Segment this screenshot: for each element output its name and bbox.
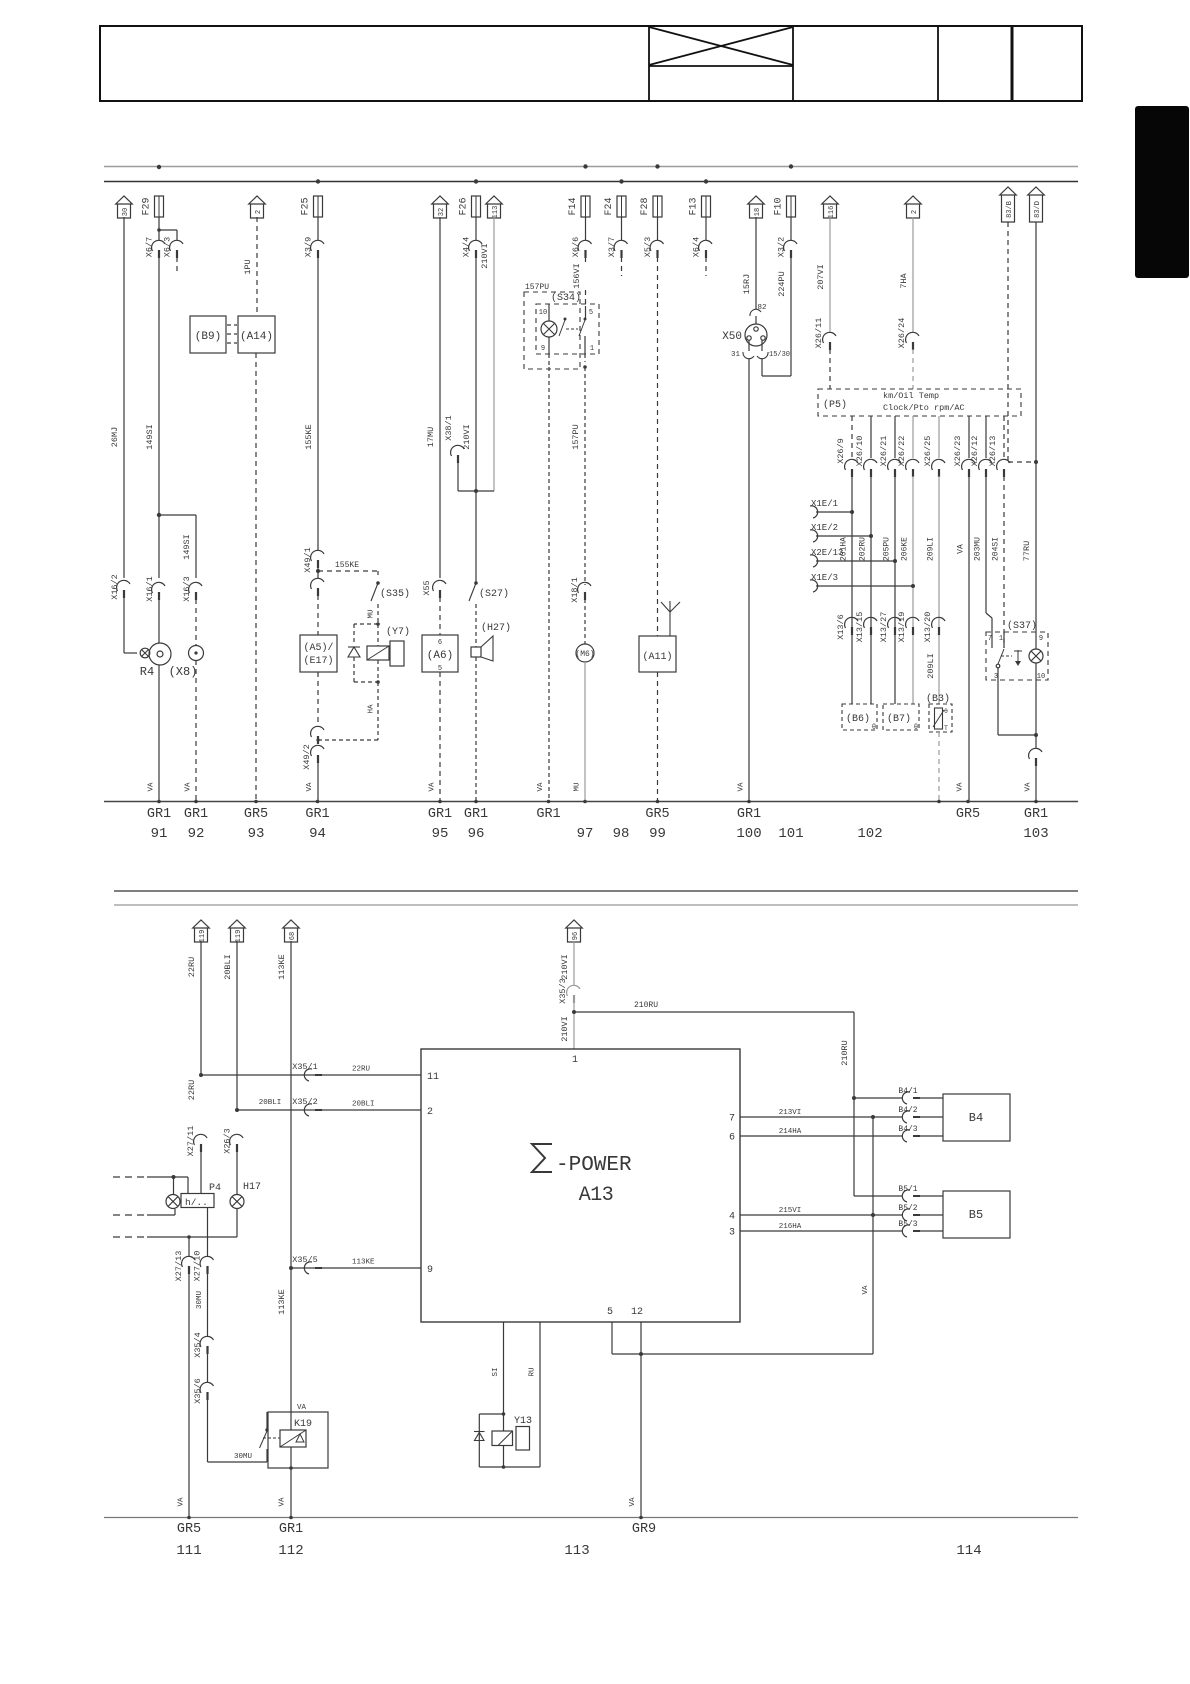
svg-text:156VI: 156VI [572,263,582,289]
svg-text:(A6): (A6) [427,650,453,662]
svg-text:215VI: 215VI [779,1207,802,1215]
svg-text:210RU: 210RU [634,1001,658,1010]
svg-text:X6/6: X6/6 [571,237,581,257]
svg-text:6: 6 [729,1133,735,1144]
svg-text:203MU: 203MU [974,537,983,561]
svg-text:157PU: 157PU [571,424,581,450]
svg-text:F10: F10 [774,197,785,215]
svg-text:210VI: 210VI [560,1016,570,1042]
svg-text:98: 98 [613,826,630,842]
svg-text:Y13: Y13 [514,1416,532,1427]
svg-text:11: 11 [427,1072,439,1083]
svg-text:-POWER: -POWER [556,1154,632,1177]
svg-text:Clock/Pto rpm/AC: Clock/Pto rpm/AC [883,403,965,413]
svg-text:B5: B5 [969,1208,983,1222]
svg-text:68: 68 [289,932,297,940]
svg-text:99: 99 [649,826,666,842]
svg-text:22RU: 22RU [352,1066,370,1074]
svg-text:VA: VA [629,1497,637,1507]
svg-text:119: 119 [199,930,207,943]
svg-text:92: 92 [188,826,205,842]
svg-text:114: 114 [956,1543,981,1559]
svg-text:R4: R4 [140,665,154,679]
svg-text:1: 1 [572,1055,578,1066]
svg-text:B4: B4 [969,1111,983,1125]
svg-text:VA: VA [738,782,746,792]
svg-text:VA: VA [429,782,437,792]
svg-text:210RU: 210RU [840,1040,850,1066]
svg-text:111: 111 [176,1543,201,1559]
svg-text:X26/23: X26/23 [953,436,963,467]
svg-text:96: 96 [572,932,580,940]
svg-text:113: 113 [564,1543,589,1559]
svg-text:X18/1: X18/1 [570,577,580,603]
svg-text:GR1: GR1 [464,807,488,822]
svg-text:VA: VA [148,782,156,792]
svg-text:VA: VA [185,782,193,792]
svg-text:GR1: GR1 [305,807,329,822]
svg-text:30MU: 30MU [196,1291,204,1309]
svg-text:5: 5 [438,665,442,673]
svg-text:10: 10 [539,309,547,317]
svg-text:X3/7: X3/7 [607,237,617,257]
svg-text:(H27): (H27) [481,622,511,634]
svg-text:VA: VA [957,544,966,554]
svg-text:(S35): (S35) [380,588,410,600]
svg-text:32: 32 [438,208,446,216]
svg-text:(S34): (S34) [551,292,581,304]
svg-text:F26: F26 [459,197,470,215]
svg-text:113KE: 113KE [352,1259,375,1267]
svg-text:P4: P4 [209,1183,221,1194]
svg-text:91: 91 [151,826,168,842]
svg-text:101: 101 [778,826,803,842]
svg-text:18: 18 [754,208,762,216]
svg-text:X26/11: X26/11 [814,318,824,349]
svg-text:6: 6 [438,639,442,647]
svg-text:204SI: 204SI [992,537,1001,561]
svg-text:(B9): (B9) [195,331,221,343]
svg-text:1: 1 [999,635,1003,643]
svg-text:1: 1 [590,345,594,353]
svg-text:20BLI: 20BLI [223,954,233,980]
svg-text:12: 12 [631,1307,643,1318]
svg-text:95: 95 [432,826,449,842]
svg-text:GR1: GR1 [1024,807,1048,822]
svg-text:1PU: 1PU [243,259,253,274]
svg-text:112: 112 [278,1543,303,1559]
svg-text:X26/9: X26/9 [836,438,846,464]
svg-text:VA: VA [957,782,965,792]
svg-text:224PU: 224PU [777,271,787,297]
svg-text:X3/2: X3/2 [777,237,787,257]
svg-text:VA: VA [178,1497,186,1507]
svg-text:X4/4: X4/4 [462,237,472,257]
svg-text:20BLI: 20BLI [352,1101,375,1109]
svg-text:9: 9 [541,345,545,353]
svg-text:(B6): (B6) [846,713,870,725]
svg-text:MU: MU [368,609,376,618]
svg-text:3: 3 [729,1228,735,1239]
svg-text:θ: θ [914,724,918,732]
svg-text:96: 96 [468,826,485,842]
svg-text:X26/24: X26/24 [897,318,907,349]
svg-text:GR1: GR1 [147,807,171,822]
svg-text:205PU: 205PU [883,537,892,561]
svg-text:X50: X50 [722,331,742,343]
svg-text:22RU: 22RU [187,957,197,977]
svg-text:VA: VA [297,1404,307,1412]
svg-text:209LI: 209LI [927,537,936,561]
svg-text:155KE: 155KE [335,561,359,570]
svg-text:15RJ: 15RJ [742,274,752,294]
svg-text:VA: VA [862,1285,870,1295]
svg-text:X35/6: X35/6 [193,1378,203,1404]
svg-text:82: 82 [757,304,766,312]
svg-text:X6/7: X6/7 [145,237,155,257]
svg-text:F24: F24 [604,197,615,215]
svg-text:5: 5 [607,1307,613,1318]
svg-text:(Y7): (Y7) [386,626,410,638]
svg-text:(X8): (X8) [169,665,198,679]
svg-text:15/30: 15/30 [769,351,790,359]
svg-text:(B3): (B3) [926,693,950,705]
svg-text:22RU: 22RU [187,1080,197,1100]
svg-text:X26/12: X26/12 [970,436,980,467]
svg-text:F14: F14 [568,197,579,215]
svg-text:HA: HA [368,704,376,714]
svg-text:149SI: 149SI [182,534,192,560]
svg-text:GR1: GR1 [428,807,452,822]
svg-text:H17: H17 [243,1182,261,1193]
svg-text:GR5: GR5 [645,807,669,822]
svg-text:20BLI: 20BLI [259,1099,282,1107]
svg-text:A13: A13 [579,1184,614,1207]
svg-text:7: 7 [729,1114,735,1125]
svg-text:K19: K19 [294,1419,312,1430]
svg-text:9: 9 [427,1265,433,1276]
svg-text:102: 102 [857,826,882,842]
svg-text:26MJ: 26MJ [110,427,120,447]
svg-text:202RU: 202RU [859,537,868,561]
svg-text:113KE: 113KE [277,1289,287,1315]
svg-text:77RU: 77RU [1022,541,1032,561]
svg-text:97: 97 [577,826,594,842]
svg-text:83/B: 83/B [1006,201,1014,218]
svg-text:2: 2 [911,210,919,214]
svg-text:206KE: 206KE [901,537,910,561]
svg-text:VA: VA [279,1497,287,1507]
svg-text:MU: MU [574,782,582,791]
svg-text:17MU: 17MU [426,427,436,447]
svg-text:4: 4 [729,1212,735,1223]
svg-text:155KE: 155KE [304,424,314,450]
svg-text:116: 116 [828,206,836,219]
svg-text:9: 9 [1039,635,1043,643]
svg-text:X6/3: X6/3 [163,237,173,257]
svg-text:θ: θ [872,724,876,732]
svg-text:(B7): (B7) [887,713,911,725]
svg-text:210VI: 210VI [560,954,570,980]
svg-text:113: 113 [492,206,500,219]
svg-text:(P5): (P5) [823,399,847,411]
svg-text:(M6): (M6) [575,650,594,659]
svg-text:X35/2: X35/2 [292,1097,318,1107]
svg-text:θ: θ [944,708,948,715]
svg-text:(S37): (S37) [1007,620,1037,632]
svg-text:X3/9: X3/9 [304,237,314,257]
svg-text:216HA: 216HA [779,1223,802,1231]
svg-text:GR1: GR1 [737,807,761,822]
svg-text:119: 119 [235,930,243,943]
svg-text:VA: VA [537,782,545,792]
svg-text:31: 31 [731,351,741,359]
svg-text:X16/2: X16/2 [110,574,120,600]
svg-text:F13: F13 [689,197,700,215]
svg-text:GR1: GR1 [536,807,560,822]
svg-text:km/Oil Temp: km/Oil Temp [883,391,939,401]
svg-text:VA: VA [1025,782,1033,792]
svg-text:210VI: 210VI [480,243,490,269]
svg-text:(E17): (E17) [303,655,333,667]
svg-text:F25: F25 [301,197,312,215]
svg-text:207VI: 207VI [816,264,826,290]
svg-text:GR5: GR5 [177,1522,201,1537]
svg-text:(A11): (A11) [642,651,672,663]
svg-text:X6/4: X6/4 [692,237,702,257]
svg-text:X26/21: X26/21 [879,436,889,467]
svg-text:X27/11: X27/11 [186,1126,196,1157]
svg-text:X26/22: X26/22 [897,436,907,467]
svg-text:5: 5 [589,309,593,317]
svg-text:103: 103 [1023,826,1048,842]
svg-text:157PU: 157PU [525,283,549,292]
svg-text:X26/25: X26/25 [923,436,933,467]
svg-text:GR9: GR9 [632,1522,656,1537]
svg-text:(S27): (S27) [479,588,509,600]
svg-text:X38/1: X38/1 [444,415,454,441]
svg-text:100: 100 [736,826,761,842]
svg-text:X35/1: X35/1 [292,1062,318,1072]
svg-text:30: 30 [122,208,130,216]
svg-text:149SI: 149SI [145,424,155,450]
svg-text:X16/1: X16/1 [145,576,155,602]
svg-text:GR5: GR5 [244,807,268,822]
svg-text:GR1: GR1 [184,807,208,822]
svg-text:(A5)/: (A5)/ [303,642,333,654]
svg-text:X49/2: X49/2 [302,744,312,770]
svg-text:94: 94 [309,826,326,842]
svg-text:GR5: GR5 [956,807,980,822]
svg-text:X16/3: X16/3 [182,576,192,602]
svg-text:F28: F28 [640,197,651,215]
svg-text:F29: F29 [142,197,153,215]
svg-text:X5/3: X5/3 [643,237,653,257]
svg-text:X35/5: X35/5 [292,1255,318,1265]
svg-text:10: 10 [1037,673,1045,681]
svg-text:214HA: 214HA [779,1128,802,1136]
svg-text:30MU: 30MU [234,1453,252,1461]
svg-text:7HA: 7HA [899,272,909,288]
svg-text:2: 2 [427,1107,433,1118]
svg-text:h/..: h/.. [185,1197,208,1208]
svg-text:GR1: GR1 [279,1522,303,1537]
svg-text:VA: VA [306,782,314,792]
svg-text:RU: RU [529,1367,537,1376]
svg-text:(A14): (A14) [240,331,273,343]
svg-text:213VI: 213VI [779,1109,802,1117]
svg-text:X26/13: X26/13 [988,436,998,467]
svg-text:X55: X55 [422,580,432,595]
svg-text:83/D: 83/D [1034,201,1042,218]
svg-text:93: 93 [248,826,265,842]
svg-text:209LI: 209LI [926,653,936,679]
svg-text:T: T [944,725,948,732]
svg-text:113KE: 113KE [277,954,287,980]
svg-text:2: 2 [255,210,263,214]
svg-text:SI: SI [492,1367,500,1376]
svg-text:X35/4: X35/4 [193,1332,203,1358]
svg-text:X26/10: X26/10 [855,436,865,467]
svg-text:X26/3: X26/3 [223,1128,233,1154]
svg-text:210VI: 210VI [462,424,472,450]
